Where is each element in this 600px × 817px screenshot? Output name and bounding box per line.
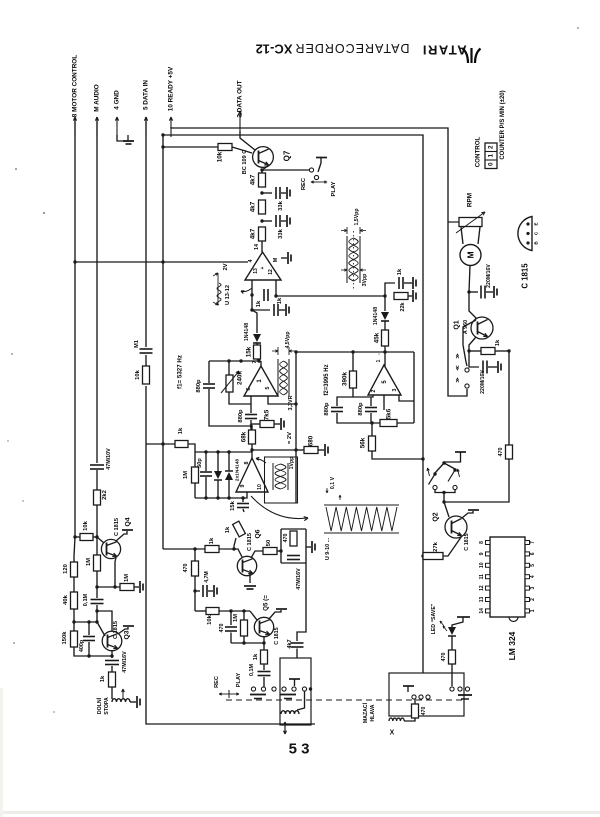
- svg-text:27k: 27k: [433, 541, 439, 551]
- svg-text:880p: 880p: [358, 402, 364, 416]
- svg-text:220M/16V: 220M/16V: [486, 264, 492, 288]
- svg-text:Q5 (=: Q5 (=: [263, 595, 270, 611]
- svg-text:M: M: [273, 257, 279, 262]
- svg-text:≫: ≫: [455, 377, 461, 382]
- capacitor 47M/16V (Q3): [105, 660, 119, 662]
- wire +5V outer rail: [171, 127, 467, 396]
- svg-text:470: 470: [183, 564, 189, 573]
- svg-text:HLAVA: HLAVA: [370, 704, 376, 721]
- motor direction switch: [465, 368, 469, 372]
- wire 1k branch py444: [161, 442, 164, 445]
- resistor 1M b (horizontal): [120, 584, 134, 591]
- svg-text:M AUDIO: M AUDIO: [94, 84, 101, 111]
- ground under contacts 3-4: [280, 694, 296, 696]
- resistor 4k7 a: [259, 173, 266, 187]
- wire Q4 base: [97, 537, 104, 543]
- svg-text:47M/16V: 47M/16V: [122, 651, 128, 673]
- wire Q7 emitter: [262, 166, 268, 173]
- svg-text:STOPA: STOPA: [104, 697, 110, 715]
- svg-text:DATARECORDER: DATARECORDER: [294, 41, 409, 55]
- supply T Q3 collector: [118, 627, 128, 634]
- resistor 1k (py444): [175, 441, 188, 448]
- svg-text:MAZACÍ: MAZACÍ: [361, 702, 369, 723]
- wire U3 base to caps: [383, 395, 385, 410]
- svg-text:1Vpp: 1Vpp: [289, 457, 295, 470]
- svg-text:14: 14: [254, 244, 260, 250]
- svg-text:BC 109 C: BC 109 C: [242, 150, 248, 175]
- diode 1N4148 b: [384, 296, 386, 311]
- svg-text:+: +: [260, 266, 266, 269]
- op-amp U4 comparator: [251, 452, 253, 458]
- svg-text:2x1N4148: 2x1N4148: [235, 459, 241, 481]
- ground bars under contacts 1-2: [250, 694, 266, 696]
- svg-text:10: 10: [479, 562, 485, 568]
- resistor 1k (Q5 emitter): [261, 650, 268, 664]
- contacts in box: [282, 687, 286, 691]
- node rail junctions: [161, 133, 164, 136]
- wire 68k node: [251, 444, 253, 452]
- wire Q5 base: [250, 611, 257, 620]
- LM324 pins right: [525, 541, 530, 545]
- svg-text:2: 2: [530, 598, 536, 601]
- wire emitter to REC switch: [262, 169, 309, 171]
- svg-text:6: 6: [530, 552, 536, 555]
- resistor 10k (Q5): [195, 610, 206, 612]
- svg-text:1M: 1M: [183, 471, 189, 479]
- svg-text:47M/10V: 47M/10V: [106, 448, 112, 470]
- diode 1N4148 d (up): [228, 452, 230, 471]
- svg-text:50: 50: [266, 540, 272, 546]
- record head coil DOLNI STOPA: [112, 699, 130, 702]
- svg-text:CONTROL: CONTROL: [475, 136, 482, 167]
- svg-text:680: 680: [308, 435, 315, 446]
- wire U2 +input from bus: [268, 396, 296, 404]
- svg-text:f2=3995 Hz: f2=3995 Hz: [324, 364, 330, 395]
- scan speckles: [43, 212, 45, 214]
- svg-text:1M: 1M: [124, 574, 130, 582]
- svg-text:PLAY: PLAY: [331, 181, 337, 196]
- terminal 3 DATA OUT: [239, 111, 241, 131]
- svg-text:4,5Vpp: 4,5Vpp: [285, 331, 291, 348]
- capacitor 1k c (to ground): [385, 283, 395, 296]
- potentiometer 240k: [228, 361, 230, 375]
- svg-text:1: 1: [530, 609, 536, 612]
- LED diode: [448, 627, 456, 635]
- resistor 1k (Q1): [507, 349, 510, 352]
- resistor 470 (bias): [194, 549, 196, 561]
- capacitor 0,1M (Q5): [258, 671, 271, 673]
- waveform box 1 rails: [346, 236, 348, 283]
- svg-text:5: 5: [530, 564, 536, 567]
- svg-text:240k: 240k: [237, 371, 244, 386]
- svg-text:5k6: 5k6: [386, 408, 393, 419]
- svg-text:Q1: Q1: [454, 320, 461, 329]
- svg-text:RPM: RPM: [467, 193, 474, 207]
- svg-text:C 1815: C 1815: [521, 263, 530, 289]
- svg-text:11: 11: [479, 574, 485, 580]
- capacitor 1k b: [273, 304, 275, 316]
- wire pot to U2 inverting input: [229, 392, 251, 404]
- svg-text:5 3: 5 3: [289, 741, 310, 758]
- svg-text:120: 120: [63, 564, 69, 574]
- RC cluster 470 + 47M/16V: [280, 529, 282, 563]
- svg-text:3: 3: [530, 586, 536, 589]
- resistor 1k diagonal: [243, 509, 244, 512]
- capacitor 47M/10V (audio line): [90, 464, 104, 466]
- svg-text:150k: 150k: [62, 631, 68, 645]
- wire U1 output right leg: [275, 280, 277, 296]
- svg-text:10k: 10k: [217, 151, 224, 162]
- terminal 5 DATA IN: [145, 117, 147, 137]
- svg-text:45k: 45k: [374, 332, 381, 343]
- svg-text:2: 2: [488, 145, 495, 149]
- svg-text:≈ 2V: ≈ 2V: [287, 432, 293, 444]
- svg-text:470: 470: [219, 624, 225, 633]
- contacts save switch: [450, 687, 454, 691]
- dimension 2V marker: [217, 273, 219, 305]
- svg-text:1k: 1k: [397, 268, 403, 275]
- svg-text:XC-12: XC-12: [256, 42, 293, 57]
- svg-text:0,1M: 0,1M: [83, 593, 89, 606]
- svg-text:f1= 5327 Hz: f1= 5327 Hz: [177, 355, 184, 389]
- svg-text:1N4148: 1N4148: [244, 323, 250, 341]
- svg-text:40k: 40k: [63, 594, 69, 604]
- wire U1 pin M to ground: [281, 257, 287, 259]
- wire Q3 emitter: [111, 650, 113, 658]
- waveform 4 (U9-10): [324, 504, 399, 506]
- wire Q1 emitter node: [469, 337, 476, 351]
- LM324 pins left: [486, 541, 491, 545]
- resistor 40k: [73, 577, 75, 592]
- svg-text:COUNTER P/S MIN (±20): COUNTER P/S MIN (±20): [500, 90, 506, 159]
- svg-text:14: 14: [479, 608, 485, 614]
- capacitor 880p (left column): [208, 361, 210, 383]
- wire Q5 emitter chain: [263, 637, 265, 650]
- svg-text:1k: 1k: [225, 526, 231, 533]
- arrows REC-PLAY bottom: [219, 693, 229, 695]
- arrow head azimuth: [284, 722, 286, 734]
- svg-text:10: 10: [257, 484, 263, 490]
- supply T Q4 collector: [116, 531, 127, 541]
- capacitor 0,1M: [91, 599, 104, 601]
- ground T cluster: [306, 546, 311, 548]
- squiggle U13-12: [217, 283, 221, 305]
- LM324 package outline: [490, 537, 525, 617]
- wire bias row py622: [74, 621, 97, 623]
- diode network top rail: [195, 451, 252, 453]
- resistor 50: [263, 548, 277, 555]
- wire 1M gnd branch: [97, 586, 120, 588]
- capacitor 4k7: [291, 642, 304, 644]
- svg-text:U 13-12: U 13-12: [225, 285, 231, 305]
- wire 0,1M to contact: [263, 686, 266, 688]
- wire inner top rail: [163, 135, 423, 673]
- svg-text:4k7: 4k7: [250, 228, 257, 239]
- svg-text:REC: REC: [301, 177, 307, 190]
- capacitor 15k (U4 output): [242, 498, 244, 502]
- terminal 10 READY +5V: [170, 117, 172, 137]
- resistor 15k: [256, 343, 258, 345]
- resistor 470 (motor): [506, 445, 513, 459]
- svg-text:Q2: Q2: [433, 512, 440, 521]
- svg-text:3,3VR: 3,3VR: [288, 395, 294, 410]
- svg-text:8: 8: [244, 462, 250, 465]
- supply T erase box: [403, 685, 414, 687]
- svg-text:33k: 33k: [278, 200, 284, 210]
- playback switch box: [280, 658, 311, 725]
- wire to cap 33k b: [262, 220, 272, 222]
- wire Q4 emitter: [115, 557, 116, 587]
- wire 45k to U3 apex: [384, 346, 386, 366]
- svg-text:4: 4: [248, 260, 254, 263]
- resistor 1k (record head): [109, 672, 116, 687]
- svg-text:4k7: 4k7: [250, 201, 257, 212]
- svg-text:E: E: [534, 222, 539, 225]
- svg-text:4k7: 4k7: [250, 174, 257, 185]
- supply T Q5: [269, 610, 281, 619]
- svg-text:4: 4: [530, 575, 536, 578]
- svg-text:PLAY: PLAY: [236, 673, 242, 688]
- capacitor 220M/16V a: [469, 291, 478, 293]
- terminal 8 MOTOR CONTROL: [74, 117, 76, 137]
- resistor 22k to ground: [394, 293, 408, 300]
- resistor 10k (Q7 base): [218, 144, 232, 151]
- erase head coil: [389, 718, 404, 721]
- wire DATA OUT to Q7 collector: [240, 131, 255, 150]
- wire feedback top f2: [296, 351, 414, 353]
- capacitor 400p: [88, 622, 90, 635]
- resistor 68k: [251, 426, 253, 430]
- svg-text:8 MOTOR CONTROL: 8 MOTOR CONTROL: [72, 55, 79, 117]
- wire right feedback f2: [413, 352, 415, 423]
- node op-amp1 to f2: [383, 294, 386, 297]
- svg-text:390k: 390k: [342, 372, 349, 387]
- wire cluster to 4k7 cap: [297, 563, 306, 641]
- resistor 470 (LED): [451, 636, 453, 650]
- svg-text:REC: REC: [214, 676, 220, 688]
- svg-text:4 GND: 4 GND: [114, 90, 121, 110]
- svg-text:≪: ≪: [455, 365, 461, 370]
- svg-text:0,1 V: 0,1 V: [330, 476, 336, 489]
- svg-text:1k: 1k: [209, 537, 215, 544]
- ground under save contacts: [458, 694, 472, 696]
- wire DATA IN line: [145, 117, 147, 347]
- wire to Q3 collector: [97, 611, 112, 631]
- svg-text:1k: 1k: [256, 300, 262, 307]
- svg-text:1M: 1M: [86, 558, 92, 566]
- dashed mechanical link: [226, 699, 466, 701]
- C1815 package outline: [518, 217, 532, 251]
- resistor 470 (Q6): [290, 531, 297, 546]
- svg-text:470: 470: [441, 653, 447, 662]
- Atari fuji logo: [463, 48, 481, 63]
- wire switch common to Q2: [435, 490, 455, 493]
- waveform 3 box: [265, 457, 298, 503]
- svg-text:C 1815: C 1815: [464, 533, 470, 550]
- contact row left: [251, 687, 255, 691]
- annotation arrow U1 output: [241, 288, 252, 292]
- wire Q1 base to switch: [463, 320, 476, 366]
- svg-text:C 1815: C 1815: [114, 518, 120, 536]
- resistor 680: [296, 449, 304, 451]
- svg-text:220M/16V: 220M/16V: [480, 370, 486, 394]
- svg-text:M1: M1: [134, 340, 140, 348]
- wire node to cap 1k b: [252, 295, 270, 310]
- motor M: [460, 245, 481, 266]
- svg-text:4,7M: 4,7M: [204, 571, 210, 583]
- resistor 120: [74, 537, 75, 562]
- resistor 10k (data): [143, 366, 150, 384]
- LED SAVE branch: [457, 616, 470, 618]
- svg-text:470: 470: [498, 448, 504, 457]
- resistor 7k5: [251, 423, 260, 425]
- svg-text:6: 6: [246, 387, 252, 390]
- supply T above contact 5: [289, 678, 300, 680]
- svg-text:≫: ≫: [455, 353, 461, 358]
- ground at GND terminal: [117, 135, 128, 141]
- dimension 4.5Vpp: [272, 350, 278, 352]
- svg-text:8: 8: [479, 541, 485, 544]
- svg-text:880p: 880p: [196, 379, 202, 393]
- capacitor 880p b (below U2): [250, 404, 252, 413]
- diode 1N4148 c (down): [217, 452, 219, 471]
- wire contact6 to coil: [297, 691, 305, 710]
- big swoosh arrow: [251, 496, 307, 519]
- wire Q3 base: [95, 620, 98, 623]
- svg-text:9: 9: [479, 552, 485, 555]
- wire U1 output left leg: [251, 280, 253, 295]
- svg-text:U 9-10 ...: U 9-10 ...: [325, 537, 331, 560]
- wire READY branch to 10k: [163, 146, 218, 148]
- svg-text:LM 324: LM 324: [507, 631, 517, 660]
- wire motor drive py502: [442, 500, 445, 503]
- wire py643: [231, 642, 264, 644]
- capacitor 880p d: [370, 397, 372, 406]
- svg-text:880p: 880p: [238, 409, 244, 423]
- svg-text:M: M: [466, 251, 476, 258]
- capacitor 50p: [205, 452, 207, 471]
- wire 4k7 to op-amp U1 pin 14: [261, 241, 263, 252]
- waveform box 1.5V/3V (osc f1 output): [277, 359, 279, 396]
- switch REC/PLAY contact 1: [309, 168, 313, 172]
- transistor Q3: [102, 631, 122, 651]
- capacitor 470 (Q5): [230, 611, 232, 625]
- wire to cap 33k a: [262, 192, 272, 194]
- waveform 3 rails: [272, 463, 274, 490]
- diode network bottom rail: [195, 492, 247, 498]
- wire 390k to U3 input 2: [353, 388, 373, 397]
- wire bus px296: [295, 352, 297, 503]
- capacitor 47M/16V (Q6): [287, 555, 300, 557]
- svg-text:15k: 15k: [230, 500, 236, 510]
- svg-text:DOLNÍ: DOLNÍ: [95, 697, 103, 714]
- terminal M AUDIO: [96, 117, 98, 137]
- svg-text:12: 12: [479, 585, 485, 591]
- resistor 10k (Q4 base): [75, 536, 80, 538]
- svg-text:3: 3: [392, 388, 398, 391]
- wire Q6 emitter: [249, 574, 251, 583]
- svg-text:3 DATA OUT: 3 DATA OUT: [237, 80, 244, 117]
- node box right edge: [309, 687, 312, 690]
- playback head coil: [281, 711, 299, 714]
- transistor Q6: [237, 556, 256, 575]
- svg-text:1k: 1k: [277, 297, 283, 304]
- svg-text:Q3: Q3: [124, 630, 131, 639]
- wire Q6 collector to 50: [251, 551, 263, 558]
- wire U2 apex: [260, 361, 262, 366]
- wire horizontal py262: [75, 261, 248, 263]
- resistor 4k7 c: [259, 227, 266, 241]
- transistor Q5: [254, 617, 273, 636]
- contacts erase switch: [412, 695, 416, 699]
- resistor 5k6: [380, 420, 397, 427]
- capacitor 33k a: [275, 187, 277, 199]
- svg-text:9: 9: [240, 484, 246, 487]
- svg-text:400p: 400p: [79, 639, 85, 652]
- transistor Q7: [253, 147, 274, 168]
- resistor 4k7 b: [259, 200, 266, 214]
- resistor 1M (feedback): [194, 452, 196, 467]
- svg-text:0,1M: 0,1M: [249, 663, 255, 675]
- resistor 390k (f2): [352, 352, 354, 371]
- svg-text:56k: 56k: [360, 437, 367, 448]
- diode 1N4148 a: [252, 310, 257, 333]
- svg-text:7: 7: [530, 541, 536, 544]
- wire feedback top f1: [209, 360, 259, 362]
- dimension 1,5Vpp: [341, 230, 347, 232]
- svg-text:47M/16V: 47M/16V: [296, 568, 302, 590]
- svg-text:C 1815: C 1815: [274, 627, 280, 644]
- terminal 4 GND: [116, 117, 118, 137]
- svg-text:4k7: 4k7: [287, 639, 293, 648]
- wire rail px163: [162, 135, 164, 549]
- op-amp U3 oscillator f2: [368, 365, 401, 395]
- wire 56k to +5 rail: [372, 451, 423, 459]
- op-amp U1 (pins 13,12,14): [245, 252, 281, 280]
- svg-text:X: X: [390, 730, 395, 737]
- node U2 output: [257, 359, 260, 362]
- svg-text:13: 13: [479, 597, 485, 603]
- svg-text:1k: 1k: [495, 339, 501, 346]
- svg-text:10k: 10k: [83, 520, 89, 530]
- resistor 2k2: [94, 490, 101, 505]
- resistor 470 (erase): [414, 699, 416, 704]
- resistor 45k: [384, 321, 386, 330]
- svg-text:1k: 1k: [178, 427, 184, 434]
- FF/REW switch (Q2): [455, 451, 466, 453]
- transistor Q1: [471, 317, 493, 339]
- erase head box MAZACI HLAVA: [389, 673, 464, 716]
- resistor 27k: [421, 554, 424, 557]
- resistor 1M a: [94, 555, 101, 571]
- svg-text:ATARI: ATARI: [421, 43, 466, 58]
- capacitor 220M/16V b: [482, 361, 484, 374]
- svg-text:Q6: Q6: [255, 529, 262, 538]
- svg-text:13: 13: [253, 268, 259, 274]
- wire 10k to Q7 base: [232, 147, 252, 153]
- svg-text:5: 5: [265, 386, 271, 389]
- svg-text:7k5: 7k5: [264, 409, 271, 420]
- resistor 150k: [71, 631, 78, 647]
- wire left ground rail: [146, 386, 315, 724]
- svg-text:2k2: 2k2: [102, 490, 108, 500]
- svg-text:880p: 880p: [324, 402, 330, 416]
- wire motor supply from rail: [448, 221, 459, 223]
- svg-text:1: 1: [376, 359, 382, 362]
- svg-text:1N4148: 1N4148: [373, 307, 379, 325]
- svg-text:2V: 2V: [223, 263, 229, 270]
- svg-text:Q7: Q7: [283, 150, 292, 161]
